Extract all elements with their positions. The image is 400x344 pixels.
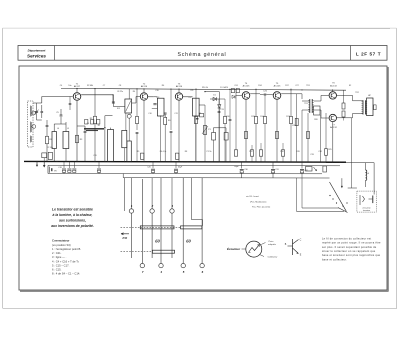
battery B1	[49, 167, 51, 173]
svg-text:D1 OA70: D1 OA70	[220, 86, 228, 89]
tuning capacitor CV1	[35, 110, 38, 112]
transistor T1	[73, 93, 81, 101]
earphone jack dashed box	[357, 191, 377, 212]
resistor R14	[264, 116, 267, 123]
bias resistor box R20	[314, 106, 321, 115]
scan page edge top	[3, 27, 397, 29]
component value labels group	[47, 85, 369, 175]
resistor R25	[325, 149, 328, 156]
svg-text:C8 22n: C8 22n	[117, 91, 123, 93]
wire can2 bottom	[160, 115, 161, 116]
wire trafo in	[302, 98, 310, 100]
wire C11 top	[170, 89, 172, 130]
elco C18c	[72, 168, 76, 170]
resistor R16	[276, 131, 279, 138]
avc cluster	[200, 114, 204, 117]
svg-text:C8: C8	[119, 85, 121, 87]
resistor R13	[255, 116, 258, 123]
wire antenna to base	[41, 97, 43, 104]
detector junction	[204, 91, 205, 92]
resistor R12	[245, 131, 248, 138]
wire det top	[205, 91, 219, 93]
svg-text:P.O: P.O	[122, 236, 127, 240]
svg-text:(Pos. Modulation): (Pos. Modulation)	[250, 200, 267, 203]
capacitor C2 box	[42, 153, 47, 158]
wire can B bottom	[123, 148, 125, 162]
svg-text:R10: R10	[226, 116, 229, 118]
svg-text:L 2F 57 T: L 2F 57 T	[356, 52, 381, 57]
antenna link circle	[32, 111, 36, 115]
svg-text:situer le collecteur en se rap: situer le collecteur en se rappelant que	[322, 249, 376, 253]
transistor T3	[175, 93, 182, 100]
svg-text:C27: C27	[295, 85, 298, 87]
svg-text:Collecteur: Collecteur	[268, 256, 278, 259]
svg-text:R16: R16	[280, 151, 283, 153]
antenna coil L1	[30, 106, 31, 108]
junction dot a	[112, 94, 113, 95]
svg-text:aux inversions de polarité.: aux inversions de polarité.	[51, 224, 94, 228]
wire T3 collector	[183, 96, 193, 98]
wire x302 down	[301, 110, 303, 162]
svg-text:R4: R4	[133, 91, 135, 93]
resistor R1	[46, 136, 49, 144]
svg-text:R17: R17	[286, 116, 289, 118]
switch bar 2	[152, 250, 174, 253]
svg-text:2 : C21.: 2 : C21.	[52, 251, 62, 255]
svg-text:Pos. Piles (ouverte): Pos. Piles (ouverte)	[252, 206, 270, 209]
svg-text:repéré par un point rouge. Il: repéré par un point rouge. Il ne pourra …	[322, 241, 381, 245]
wire T2 top	[143, 89, 145, 93]
ground arrow	[43, 161, 45, 165]
svg-text:10n: 10n	[68, 85, 71, 87]
svg-text:AF116: AF116	[176, 85, 183, 88]
switch bar 3	[181, 226, 202, 229]
svg-text:L4: L4	[57, 128, 59, 130]
wire 320 down	[320, 115, 322, 162]
drawing frame	[19, 66, 387, 290]
svg-text:AF116: AF116	[141, 85, 148, 88]
warning text block	[51, 208, 94, 229]
oscillator coil can L4	[52, 132, 56, 149]
wire T3 down	[178, 100, 180, 162]
wire ground bus	[24, 160, 346, 163]
svg-text:AC132: AC132	[330, 84, 337, 87]
svg-text:Département: Département	[28, 48, 47, 52]
osc trimmer box	[125, 99, 132, 113]
svg-text:C33: C33	[310, 154, 313, 156]
switch terminal top 2	[150, 209, 154, 213]
wire 351 down	[351, 118, 353, 188]
resistor R10	[224, 116, 227, 123]
svg-text:C31: C31	[275, 169, 278, 171]
transistor T7	[329, 114, 336, 121]
svg-text:Le transistor est sensible: Le transistor est sensible	[52, 208, 93, 212]
svg-text:R14: R14	[260, 116, 263, 118]
label collecteur	[260, 255, 265, 257]
wire FI3 down	[195, 115, 196, 116]
switch terminal bottom 5	[181, 263, 185, 267]
svg-text:R13: R13	[251, 116, 254, 118]
wire lower rail D	[123, 177, 329, 179]
svg-text:AC132: AC132	[330, 126, 337, 129]
wire antenna top	[33, 102, 42, 104]
svg-text:Schéma général: Schéma général	[178, 52, 227, 58]
wire mixer mid	[105, 115, 113, 117]
resistor R8	[176, 153, 179, 159]
antenna coil L3	[30, 136, 31, 138]
transistor T6	[329, 92, 336, 99]
svg-text:à la lumière, à la chaleur,: à la lumière, à la chaleur,	[53, 213, 93, 217]
title block frame	[18, 46, 387, 61]
scan page edge right	[396, 28, 398, 309]
wire output collectors	[337, 94, 353, 96]
switch dashed travel line 1	[121, 226, 181, 228]
svg-text:R12: R12	[249, 151, 252, 153]
transistor T5	[273, 92, 281, 100]
IF can C	[127, 141, 131, 162]
volume pot P1	[203, 126, 206, 135]
wire T5 down	[276, 100, 278, 162]
svg-text:AC125: AC125	[274, 85, 281, 88]
svg-text:8 : 4 de S4 – C1 – C14.: 8 : 4 de S4 – C1 – C14.	[52, 272, 80, 276]
elco C32	[300, 169, 304, 171]
wire to switch 4	[190, 178, 192, 220]
resistor R11	[234, 150, 237, 156]
resistor R9	[195, 116, 198, 123]
cap C10 side	[153, 103, 156, 105]
svg-text:adaptée: adaptée	[268, 243, 277, 246]
svg-text:R6 4,7k: R6 4,7k	[160, 151, 167, 153]
wire jack right	[373, 163, 375, 195]
resistor R18	[281, 150, 284, 156]
svg-text:S2: S2	[349, 85, 351, 87]
base resistor R2	[94, 116, 97, 124]
wire T2 base	[132, 102, 136, 104]
coupling cap C26	[264, 93, 267, 95]
wire T2 down	[143, 100, 145, 162]
output transformer TR2	[362, 100, 364, 114]
svg-text:R2: R2	[98, 125, 100, 127]
elco C18	[62, 168, 66, 170]
ferrite antenna dashed box	[28, 101, 34, 147]
wire lever feed inner	[301, 178, 303, 208]
svg-text:C14: C14	[232, 89, 235, 91]
wire 296 down	[296, 94, 298, 162]
svg-text:TR1: TR1	[304, 103, 308, 105]
svg-text:L6: L6	[367, 173, 369, 175]
resistor R6	[164, 117, 167, 124]
svg-text:via S3 : fermé: via S3 : fermé	[246, 195, 260, 198]
svg-text:FI3: FI3	[189, 97, 192, 99]
cap C13	[218, 110, 221, 112]
switch terminal bottom 7	[140, 263, 144, 267]
elco C19	[97, 168, 101, 170]
wire T2 collector	[148, 96, 154, 98]
wire T7 emitter down	[332, 122, 334, 162]
det U wire	[213, 127, 226, 129]
wire trafo out to T6	[314, 100, 321, 102]
wire T4 down	[245, 100, 247, 162]
transistor T2	[140, 93, 147, 100]
svg-text:base et collecteur.: base et collecteur.	[322, 257, 347, 261]
elco C31	[271, 169, 275, 171]
svg-text:base et émetteur sont plus rap: base et émetteur sont plus rapprochés qu…	[322, 253, 381, 257]
svg-text:AC125: AC125	[243, 85, 250, 88]
switch hook wire	[191, 219, 202, 221]
wire T1 collector	[81, 94, 113, 96]
svg-text:C20: C20	[147, 167, 150, 169]
osc circle	[127, 114, 131, 118]
wire canA stub	[110, 128, 112, 130]
resistor R17	[290, 116, 293, 123]
svg-text:R19: R19	[296, 151, 299, 153]
svg-text:C18: C18	[58, 167, 61, 169]
ground arrow 2	[36, 161, 38, 165]
osc feedback cluster	[85, 120, 88, 125]
svg-text:R9: R9	[199, 113, 201, 115]
svg-text:C7: C7	[103, 85, 105, 87]
ecouteur circle	[246, 241, 262, 257]
wire supply rail C	[48, 173, 322, 175]
wire T3 top	[178, 89, 180, 93]
wire rail bracket	[47, 165, 49, 173]
scan page edge bottom	[3, 308, 397, 310]
svg-text:TR2: TR2	[355, 92, 359, 94]
wire T1 emitter	[76, 101, 78, 162]
switch PO arrow	[121, 233, 129, 235]
cap C11	[170, 130, 173, 132]
wire 308 down	[307, 113, 309, 162]
svg-text:C24: C24	[234, 85, 237, 87]
svg-text:6 : C15.: 6 : C15.	[52, 268, 62, 272]
cap C9	[136, 131, 139, 133]
elco C20	[151, 168, 155, 170]
svg-text:R8: R8	[185, 151, 187, 153]
svg-text:FI2: FI2	[157, 97, 160, 99]
svg-text:set plus. Il serait cependant: set plus. Il serait cependant possible d…	[322, 245, 377, 249]
cap C14	[229, 118, 232, 120]
diode D1	[210, 98, 219, 100]
below bus right boxes	[306, 167, 313, 172]
svg-text:(vu position S3): (vu position S3)	[52, 243, 71, 247]
resistor R23	[342, 103, 345, 109]
svg-text:C30: C30	[244, 169, 247, 171]
svg-text:3 : ligne — .: 3 : ligne — .	[52, 255, 67, 259]
wire top rail	[61, 88, 346, 90]
svg-text:C32: C32	[304, 170, 307, 172]
bypass cap C6	[84, 130, 87, 132]
pre T4 cluster	[231, 89, 234, 93]
wire detector	[199, 104, 205, 106]
resistor R5	[141, 153, 144, 159]
transistor lead diagram	[292, 239, 294, 255]
wire trafo out to T7	[314, 109, 321, 111]
svg-text:TR1: TR1	[306, 85, 310, 87]
svg-text:Services: Services	[27, 54, 46, 59]
wire T1 top	[76, 89, 78, 93]
osc switch cluster	[48, 152, 52, 159]
wire supply rail B	[48, 164, 340, 166]
driver transformer TR1	[309, 99, 311, 113]
svg-text:4 : C4 + C16 + T de Tr.: 4 : C4 + C16 + T de Tr.	[52, 259, 79, 263]
svg-text:Commutateur: Commutateur	[52, 238, 69, 242]
wire T6 top	[332, 90, 334, 91]
wire right vertical	[345, 89, 347, 163]
svg-text:R18: R18	[292, 125, 295, 127]
svg-text:R20: R20	[314, 119, 317, 121]
svg-text:aux surtensions,: aux surtensions,	[59, 219, 86, 223]
svg-text:P1 5k: P1 5k	[207, 151, 212, 153]
T1 base cap	[69, 103, 72, 105]
wire T4 collector	[250, 93, 260, 95]
wire T1 collector path	[112, 95, 114, 107]
svg-text:FI3: FI3	[191, 90, 194, 92]
wire to switch 0	[123, 178, 125, 211]
svg-text:Le fil de connexion du collect: Le fil de connexion du collecteur est	[322, 237, 371, 241]
svg-text:C10: C10	[155, 90, 158, 92]
elco C30	[240, 169, 244, 171]
commutateur list	[52, 238, 81, 275]
scan page edge left	[2, 28, 4, 308]
wire box down	[125, 113, 127, 130]
svg-text:AF117: AF117	[74, 85, 81, 88]
IF can A	[108, 130, 114, 162]
switch bar 1	[140, 226, 174, 229]
speaker HP	[367, 98, 373, 116]
choke coil L6	[365, 163, 367, 170]
svg-text:C2 10n: C2 10n	[47, 147, 53, 149]
wire arrow to lever	[341, 178, 343, 187]
svg-text:Prise: Prise	[269, 241, 275, 243]
svg-text:C19: C19	[93, 155, 96, 157]
note paragraph	[322, 237, 381, 262]
cap C8 on line	[112, 101, 115, 103]
svg-text:R6: R6	[162, 85, 164, 87]
switch terminal top 1	[129, 209, 133, 213]
jack contacts	[359, 195, 361, 205]
resistor R15	[259, 150, 262, 156]
elco C18b	[67, 168, 71, 170]
padder cap C5	[60, 114, 63, 116]
svg-text:C10: C10	[148, 113, 151, 115]
wire horiz 188	[348, 187, 357, 189]
switch dashed travel line 2	[121, 251, 153, 253]
svg-text:5 : C15 – C17.: 5 : C15 – C17.	[52, 263, 70, 267]
transistor T4	[242, 92, 250, 100]
svg-text:1 : l'enregistreur point B.: 1 : l'enregistreur point B.	[52, 247, 81, 251]
svg-text:C11: C11	[174, 113, 177, 115]
IF can B	[122, 130, 127, 147]
antenna coil L2	[30, 122, 31, 124]
junction dots top rail	[76, 88, 77, 89]
emitter resistor R3	[76, 135, 79, 143]
resistor R24	[342, 111, 345, 117]
svg-text:R14: R14	[258, 85, 261, 87]
label prise adaptee	[261, 243, 265, 245]
elco C22	[174, 168, 178, 170]
wire to jack rail	[326, 162, 374, 164]
svg-text:Écouteur: Écouteur	[227, 246, 241, 251]
switch terminal top 3	[170, 209, 174, 213]
wire top to box	[128, 89, 130, 99]
trimmer C1	[41, 110, 44, 112]
switch lever S2	[330, 182, 347, 211]
switch terminal bottom 6	[200, 263, 204, 267]
svg-text:R10 5k: R10 5k	[202, 87, 208, 89]
switch terminal bottom 4	[159, 263, 163, 267]
svg-text:C34: C34	[318, 151, 321, 153]
svg-text:écouteur: écouteur	[363, 209, 371, 212]
speaker cap	[374, 105, 377, 110]
svg-text:R2 68k: R2 68k	[87, 85, 93, 87]
coupling cap C3	[46, 124, 49, 126]
osc cluster bars	[84, 128, 104, 130]
wire lever feed outer	[296, 178, 298, 212]
resistor R4	[136, 116, 139, 123]
svg-text:C4: C4	[60, 85, 62, 87]
svg-text:C6: C6	[87, 123, 89, 125]
svg-text:L5: L5	[67, 128, 69, 130]
svg-text:R25: R25	[328, 149, 331, 151]
svg-text:R17: R17	[285, 85, 288, 87]
wire T5 collector	[281, 93, 302, 95]
diode D1 vertical	[218, 92, 220, 105]
neutralizing cap C10	[157, 98, 164, 116]
resistor R13b	[250, 150, 253, 156]
svg-text:4: 4	[160, 270, 163, 274]
svg-text:C13: C13	[220, 109, 223, 111]
wire osc top	[54, 123, 66, 125]
wire T4 base	[236, 95, 242, 97]
oscillator coil can L5	[63, 132, 69, 149]
IF transformer can FI3	[193, 98, 200, 116]
